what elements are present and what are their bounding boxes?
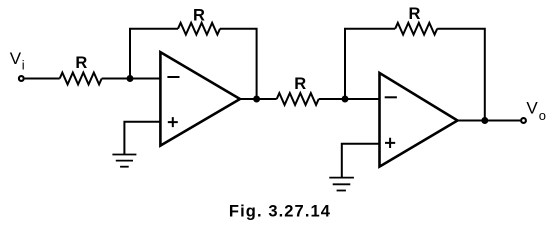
svg-text:V: V — [10, 49, 22, 68]
svg-text:i: i — [22, 58, 25, 73]
svg-text:V: V — [526, 99, 538, 118]
svg-text:R: R — [75, 54, 87, 72]
svg-text:R: R — [294, 75, 306, 93]
svg-text:R: R — [409, 5, 421, 23]
svg-text:R: R — [193, 7, 205, 25]
svg-text:o: o — [539, 108, 546, 123]
svg-text:Fig. 3.27.14: Fig. 3.27.14 — [229, 202, 331, 220]
